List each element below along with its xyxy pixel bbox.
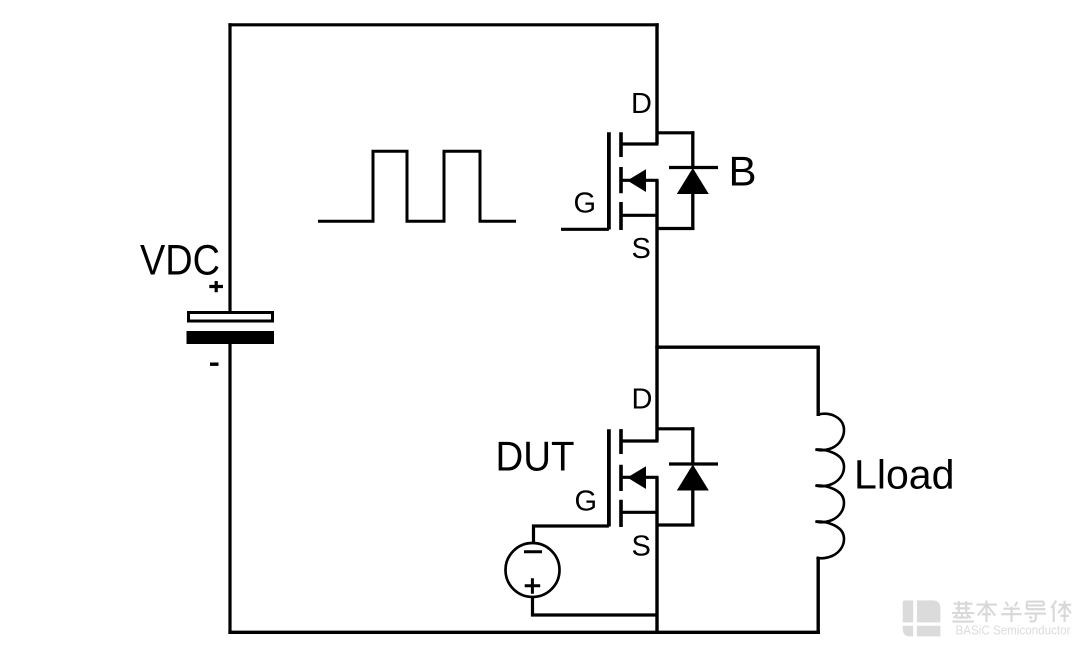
watermark logo quadrant bottom-right: [917, 626, 941, 637]
label battery plus: [209, 281, 223, 292]
transistor DUT channel segments: [619, 429, 623, 527]
pulse waveform (double pulse): [318, 151, 516, 221]
wire inductor bottom lead: [817, 557, 820, 632]
wire drain Q_B: [655, 23, 658, 144]
battery VDC top plate: [189, 313, 273, 322]
transistor Q_B source lead: [620, 214, 659, 217]
diode DUT bottom tee: [656, 523, 695, 526]
diode Q_B top tee: [656, 131, 695, 134]
wire DUT source to bottom bus: [655, 477, 658, 632]
wire driver return: [533, 596, 659, 615]
svg-text:D: D: [632, 384, 653, 416]
svg-text:DUT: DUT: [496, 433, 575, 480]
transistor Q_B channel segments: [619, 132, 623, 230]
transistor Q_B body line: [622, 179, 659, 182]
diode DUT branch wires: [691, 427, 694, 526]
wire DUT gate to driver: [534, 526, 609, 544]
watermark hanzi ban (半): [1001, 602, 1021, 622]
transistor DUT body arrow: [627, 466, 646, 489]
transistor DUT body line: [622, 476, 659, 479]
wire left bus upper (VDC +): [228, 23, 231, 312]
svg-text:B: B: [729, 148, 757, 195]
svg-text:G: G: [574, 188, 597, 220]
source V_G circle: [506, 543, 560, 597]
watermark logo quadrant top-left: [903, 600, 914, 622]
wire bottom bus: [228, 631, 820, 634]
diode Q_B anode triangle: [677, 168, 709, 194]
wire inductor top lead: [817, 346, 820, 417]
svg-text:D: D: [631, 88, 652, 120]
inductor Lload: [816, 414, 844, 558]
label V_G plus: [525, 578, 541, 593]
battery VDC bottom plate: [187, 331, 275, 344]
wire top bus: [228, 23, 658, 26]
transistor DUT drain lead: [620, 439, 659, 442]
transistor Q_B body arrow: [627, 169, 646, 192]
watermark hanzi ben (本): [976, 600, 997, 622]
watermark hanzi ji (基): [952, 601, 974, 622]
svg-text:S: S: [632, 233, 651, 265]
svg-text:S: S: [632, 531, 651, 563]
wire mid node (Q_B source to DUT drain): [655, 180, 658, 441]
diode DUT top tee: [656, 427, 695, 430]
diode Q_B cathode bar: [669, 166, 718, 169]
label V_G minus: [524, 550, 542, 553]
transistor DUT gate bar: [607, 429, 611, 526]
label battery minus: [210, 363, 219, 366]
watermark hanzi ti (体): [1051, 601, 1071, 622]
svg-text:VDC: VDC: [140, 238, 220, 285]
svg-text:Lload: Lload: [854, 452, 955, 498]
transistor Q_B gate bar: [607, 132, 611, 229]
watermark logo quadrant top-right: [917, 600, 941, 622]
diode DUT anode triangle: [677, 465, 709, 491]
transistor Q_B gate stub: [561, 228, 609, 231]
watermark hanzi dao (导): [1025, 602, 1046, 622]
transistor Q_B drain lead: [620, 142, 659, 145]
wire load branch: [655, 346, 818, 349]
diode DUT cathode bar: [669, 462, 718, 465]
transistor DUT source lead: [620, 511, 659, 514]
watermark logo quadrant bottom-left: [903, 626, 914, 637]
svg-text:G: G: [575, 486, 598, 518]
diode Q_B bottom tee: [656, 227, 695, 230]
wire left bus lower (VDC -): [228, 344, 231, 635]
diode Q_B branch wires: [691, 131, 694, 230]
svg-text:BASiC Semiconductor: BASiC Semiconductor: [956, 624, 1071, 638]
